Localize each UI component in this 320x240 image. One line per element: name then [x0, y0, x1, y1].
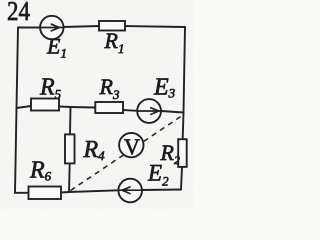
- wire E2 to bottom-right corner: [142, 189, 181, 192]
- resistor R5: [31, 99, 59, 111]
- source E1: [40, 16, 63, 39]
- arrow of E3 (points right): [137, 110, 160, 112]
- resistor R1: [99, 21, 125, 31]
- arrow of E1 (points right): [40, 27, 62, 29]
- wire right side lower: [181, 167, 182, 190]
- wire E3 to right side: [161, 111, 184, 113]
- arrow of E2 (points left): [119, 189, 142, 191]
- voltmeter V: [119, 133, 143, 157]
- resistor R4: [65, 134, 75, 163]
- wire node A to R3: [71, 106, 96, 109]
- wire R6 to node B: [61, 191, 69, 194]
- wire R1 to top-right corner: [125, 26, 185, 27]
- wire left side: [15, 28, 18, 193]
- wire E1 to R1: [63, 26, 99, 27]
- wire right side upper: [183, 27, 185, 139]
- svg-text:24: 24: [7, 0, 30, 26]
- wire middle left to R5: [17, 106, 32, 108]
- wire node B to E2: [69, 190, 119, 192]
- wire R3 to E3: [123, 109, 137, 112]
- svg-text:V: V: [124, 134, 140, 159]
- source E3: [137, 99, 161, 123]
- wire node A down to R4: [69, 107, 72, 134]
- wire bottom-left to R6: [15, 192, 30, 194]
- source E2: [118, 179, 142, 203]
- dashed voltmeter lead from node B to right-side junction: [71, 115, 184, 191]
- wire top-left to E1: [18, 27, 40, 29]
- resistor R2: [178, 139, 187, 167]
- wire R4 to bottom node B: [68, 163, 71, 192]
- wire R5 to node A: [59, 106, 71, 109]
- resistor R3: [95, 102, 123, 113]
- resistor R6: [29, 187, 62, 200]
